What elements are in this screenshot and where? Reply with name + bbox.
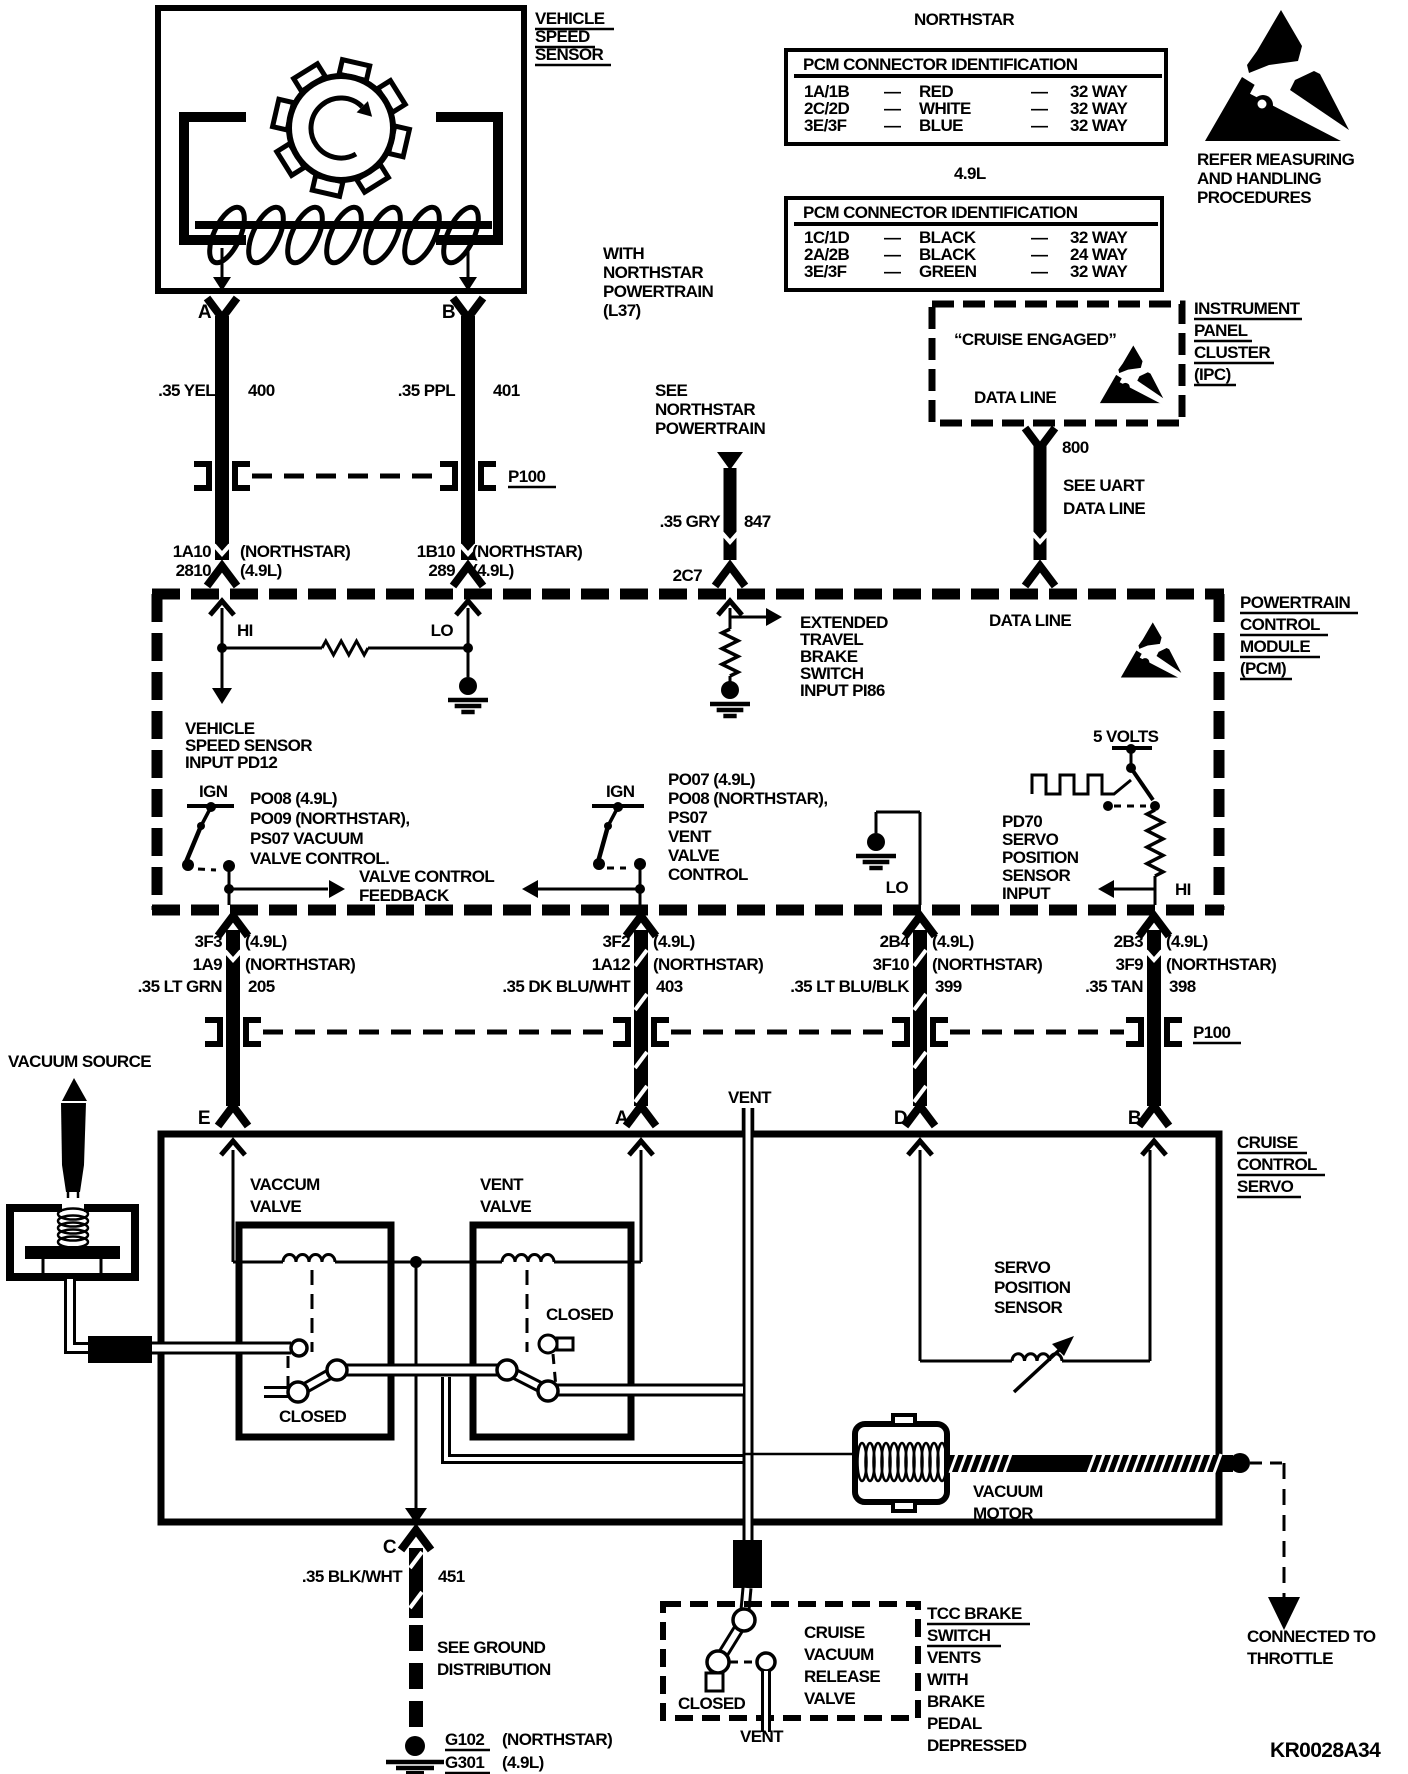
svg-text:POSITION: POSITION [994, 1278, 1071, 1297]
svg-text:BLUE: BLUE [919, 116, 963, 135]
svg-text:A: A [615, 1108, 629, 1129]
svg-text:.35 PPL: .35 PPL [398, 381, 455, 400]
svg-text:3E/3F: 3E/3F [804, 262, 847, 281]
svg-text:—: — [884, 116, 901, 135]
vent pipe above servo [742, 1108, 745, 1136]
svg-text:1B10: 1B10 [417, 542, 455, 561]
VSS core bar [195, 221, 492, 229]
svg-text:HI: HI [237, 621, 253, 640]
svg-text:SPEED: SPEED [535, 27, 590, 46]
svg-text:B: B [1128, 1108, 1141, 1129]
svg-text:VACCUM: VACCUM [250, 1175, 320, 1194]
vent valve seat symbol [539, 1335, 557, 1353]
LO branch ground [867, 833, 885, 851]
svg-text:VENT: VENT [728, 1088, 772, 1107]
svg-text:WITH: WITH [927, 1670, 968, 1689]
svg-text:(4.9L): (4.9L) [932, 932, 974, 951]
svg-text:AND HANDLING: AND HANDLING [1197, 169, 1321, 188]
svg-text:REFER MEASURING: REFER MEASURING [1197, 150, 1355, 169]
svg-text:CLOSED: CLOSED [546, 1305, 614, 1324]
TCC brake switch box [663, 1604, 918, 1718]
VSS pickup coil [203, 202, 252, 267]
svg-text:3F2: 3F2 [603, 932, 631, 951]
svg-text:800: 800 [1062, 438, 1089, 457]
svg-text:INSTRUMENT: INSTRUMENT [1194, 299, 1301, 318]
svg-text:INPUT PD12: INPUT PD12 [185, 753, 277, 772]
svg-text:CRUISE: CRUISE [804, 1623, 865, 1642]
vacuum valve lever [298, 1370, 337, 1392]
svg-text:(4.9L): (4.9L) [245, 932, 287, 951]
svg-text:TCC BRAKE: TCC BRAKE [927, 1604, 1022, 1623]
wire 398 (.35 TAN) [1139, 916, 1169, 936]
wire 847 (.35 GRY) [717, 452, 743, 470]
svg-text:LO: LO [886, 878, 909, 897]
tube to vacuum motor (continuation) [743, 1453, 857, 1456]
VSS coil lead A [221, 248, 224, 282]
PCM entry wire A [210, 601, 234, 615]
svg-text:.35 BLK/WHT: .35 BLK/WHT [302, 1567, 403, 1586]
VSS left pole piece [184, 117, 246, 240]
valve control feedback arrow (right) [229, 888, 328, 891]
svg-text:(4.9L): (4.9L) [240, 561, 282, 580]
svg-text:PO07 (4.9L): PO07 (4.9L) [668, 770, 755, 789]
svg-text:(NORTHSTAR): (NORTHSTAR) [472, 542, 582, 561]
svg-text:2B3: 2B3 [1114, 932, 1144, 951]
svg-text:PS07 VACUUM: PS07 VACUUM [250, 829, 363, 848]
vacuum valve box [239, 1225, 391, 1437]
svg-text:SENSOR: SENSOR [994, 1298, 1063, 1317]
svg-text:(NORTHSTAR): (NORTHSTAR) [502, 1730, 612, 1749]
svg-text:401: 401 [493, 381, 520, 400]
svg-text:POWERTRAIN: POWERTRAIN [603, 282, 713, 301]
wire 800 UART data line [1025, 428, 1055, 448]
svg-text:DISTRIBUTION: DISTRIBUTION [437, 1660, 551, 1679]
cruise control servo box [161, 1134, 1219, 1522]
svg-text:3F9: 3F9 [1116, 955, 1144, 974]
svg-text:—: — [884, 262, 901, 281]
svg-text:KR0028A34: KR0028A34 [1270, 1739, 1381, 1762]
ground for 847 input [721, 681, 739, 699]
svg-text:MODULE: MODULE [1240, 637, 1310, 656]
svg-text:1A12: 1A12 [592, 955, 630, 974]
svg-text:IGN: IGN [606, 782, 635, 801]
PCM connector table (4.9L) [786, 198, 1162, 290]
svg-text:VALVE CONTROL.: VALVE CONTROL. [250, 849, 389, 868]
vent valve coil [502, 1255, 554, 1262]
svg-text:PROCEDURES: PROCEDURES [1197, 188, 1311, 207]
svg-text:32 WAY: 32 WAY [1070, 262, 1128, 281]
internal resistor between HI and LO [222, 647, 322, 650]
vacuum valve plunger dashes [311, 1270, 314, 1352]
svg-text:.35 LT BLU/BLK: .35 LT BLU/BLK [790, 977, 910, 996]
svg-text:.35 YEL: .35 YEL [158, 381, 215, 400]
svg-text:NORTHSTAR: NORTHSTAR [655, 400, 755, 419]
servo position sensor [919, 1150, 922, 1361]
svg-text:DEPRESSED: DEPRESSED [927, 1736, 1027, 1755]
svg-text:SERVO: SERVO [994, 1258, 1051, 1277]
svg-text:—: — [1031, 262, 1048, 281]
canister spring [58, 1209, 88, 1220]
svg-text:—: — [1031, 116, 1048, 135]
svg-text:PO08 (NORTHSTAR),: PO08 (NORTHSTAR), [668, 789, 828, 808]
vent down tube [743, 1108, 754, 1540]
svg-text:VENTS: VENTS [927, 1648, 981, 1667]
elbow tube to vacuum motor [446, 1377, 743, 1459]
svg-text:VALVE: VALVE [668, 846, 719, 865]
svg-text:BRAKE: BRAKE [927, 1692, 985, 1711]
svg-text:(4.9L): (4.9L) [472, 561, 514, 580]
vent tube coupler to TCC valve [733, 1540, 762, 1588]
svg-text:.35 DK BLU/WHT: .35 DK BLU/WHT [502, 977, 631, 996]
svg-text:VALVE: VALVE [250, 1197, 301, 1216]
vent tube below valve [761, 1671, 771, 1732]
svg-text:NORTHSTAR: NORTHSTAR [603, 263, 703, 282]
wire to ground distribution [409, 1625, 423, 1734]
svg-text:(NORTHSTAR): (NORTHSTAR) [245, 955, 355, 974]
VSS right pole piece [436, 117, 498, 240]
svg-text:G301: G301 [445, 1753, 484, 1772]
svg-text:PD70: PD70 [1002, 812, 1042, 831]
svg-text:(NORTHSTAR): (NORTHSTAR) [932, 955, 1042, 974]
svg-text:VACUUM: VACUUM [973, 1482, 1043, 1501]
svg-text:4.9L: 4.9L [954, 164, 986, 183]
svg-text:CLOSED: CLOSED [279, 1407, 347, 1426]
vehicle speed sensor box [158, 8, 524, 291]
svg-text:.35 TAN: .35 TAN [1085, 977, 1143, 996]
svg-text:DATA LINE: DATA LINE [1063, 499, 1145, 518]
svg-text:32 WAY: 32 WAY [1070, 116, 1128, 135]
vehicle speed sensor input arrow [221, 648, 224, 690]
svg-text:SEE: SEE [655, 381, 687, 400]
svg-text:DATA LINE: DATA LINE [974, 388, 1056, 407]
svg-text:IGN: IGN [199, 782, 228, 801]
svg-text:205: 205 [248, 977, 275, 996]
svg-text:NORTHSTAR: NORTHSTAR [914, 10, 1014, 29]
svg-text:PS07: PS07 [668, 808, 707, 827]
svg-text:SENSOR: SENSOR [535, 45, 604, 64]
svg-text:(L37): (L37) [603, 301, 641, 320]
powertrain control module box [152, 589, 1224, 600]
vent valve plunger dashes [526, 1270, 529, 1352]
ESD symbol in IPC [1100, 345, 1166, 403]
svg-text:PO09 (NORTHSTAR),: PO09 (NORTHSTAR), [250, 809, 410, 828]
svg-text:A: A [198, 302, 212, 323]
svg-text:(4.9L): (4.9L) [502, 1753, 544, 1772]
PCM connector table (NORTHSTAR) [786, 50, 1166, 144]
junction node C feed [410, 1256, 422, 1268]
vent valve lever [507, 1370, 548, 1391]
pull-down resistor on 847 [722, 629, 738, 676]
svg-text:B: B [442, 302, 455, 323]
node LO [463, 643, 473, 653]
svg-text:VENT: VENT [480, 1175, 524, 1194]
svg-text:3F10: 3F10 [873, 955, 909, 974]
svg-text:SERVO: SERVO [1002, 830, 1059, 849]
svg-text:1A10: 1A10 [173, 542, 211, 561]
svg-text:1A9: 1A9 [193, 955, 223, 974]
svg-text:451: 451 [438, 1567, 465, 1586]
svg-text:PEDAL: PEDAL [927, 1714, 982, 1733]
svg-text:399: 399 [935, 977, 962, 996]
svg-text:POSITION: POSITION [1002, 848, 1079, 867]
svg-text:VEHICLE: VEHICLE [535, 9, 605, 28]
svg-text:WITH: WITH [603, 244, 644, 263]
svg-text:SERVO: SERVO [1237, 1177, 1294, 1196]
svg-text:“CRUISE ENGAGED”: “CRUISE ENGAGED” [954, 330, 1116, 349]
svg-text:398: 398 [1169, 977, 1196, 996]
potentiometer arrow [1014, 1342, 1068, 1392]
canister outlet tube [70, 1279, 88, 1348]
svg-text:(NORTHSTAR): (NORTHSTAR) [240, 542, 350, 561]
line from A to vent valve [640, 1150, 643, 1262]
wire 399 (.35 LT BLU/BLK) [905, 916, 935, 936]
svg-text:POWERTRAIN: POWERTRAIN [1240, 593, 1350, 612]
vacuum motor [855, 1424, 947, 1502]
svg-text:CLUSTER: CLUSTER [1194, 343, 1270, 362]
servo entry arrows [221, 1141, 245, 1155]
PD70 input arrow [1114, 888, 1155, 891]
svg-text:VALVE: VALVE [804, 1689, 855, 1708]
svg-text:VALVE CONTROL: VALVE CONTROL [359, 867, 494, 886]
svg-text:403: 403 [656, 977, 683, 996]
svg-text:HI: HI [1175, 880, 1191, 899]
svg-text:847: 847 [744, 512, 771, 531]
canister diaphragm plate [25, 1246, 120, 1259]
svg-text:G102: G102 [445, 1730, 484, 1749]
svg-text:3F3: 3F3 [195, 932, 223, 951]
square wave signal symbol [1032, 775, 1131, 794]
servo position sensor resistor [1147, 810, 1163, 876]
svg-text:(4.9L): (4.9L) [1166, 932, 1208, 951]
svg-text:THROTTLE: THROTTLE [1247, 1649, 1333, 1668]
svg-text:CONTROL: CONTROL [668, 865, 748, 884]
vent valve outlet tube [556, 1384, 743, 1397]
svg-text:E: E [198, 1108, 210, 1129]
svg-text:SEE UART: SEE UART [1063, 476, 1145, 495]
svg-text:VACUUM SOURCE: VACUUM SOURCE [8, 1052, 151, 1071]
terminal C [401, 1530, 431, 1550]
svg-text:RELEASE: RELEASE [804, 1667, 880, 1686]
svg-text:400: 400 [248, 381, 275, 400]
vacuum valve coil [283, 1255, 335, 1262]
ESD warning symbol (large) [1205, 10, 1355, 141]
wire 403 (.35 DK BLU/WHT) [626, 916, 656, 936]
ground G102/G301 [405, 1736, 425, 1756]
terminal A of VSS [207, 298, 237, 318]
svg-text:2C7: 2C7 [673, 566, 703, 585]
svg-text:PCM CONNECTOR IDENTIFICATION: PCM CONNECTOR IDENTIFICATION [803, 203, 1078, 222]
wire 451 feed (C) [415, 1262, 418, 1508]
svg-text:INPUT PI86: INPUT PI86 [800, 681, 885, 700]
svg-text:INPUT: INPUT [1002, 884, 1051, 903]
svg-text:5 VOLTS: 5 VOLTS [1093, 727, 1159, 746]
svg-text:CONTROL: CONTROL [1240, 615, 1320, 634]
ESD symbol in PCM [1121, 622, 1184, 677]
terminal B of VSS [453, 298, 483, 318]
svg-text:(NORTHSTAR): (NORTHSTAR) [1166, 955, 1276, 974]
svg-text:GREEN: GREEN [919, 262, 977, 281]
vent valve box [473, 1225, 631, 1437]
svg-text:(IPC): (IPC) [1194, 365, 1231, 384]
svg-text:POWERTRAIN: POWERTRAIN [655, 419, 765, 438]
VSS coil lead B [467, 248, 470, 282]
svg-text:CLOSED: CLOSED [678, 1694, 746, 1713]
lever pivots [291, 1340, 307, 1356]
svg-text:VENT: VENT [668, 827, 712, 846]
svg-text:P100: P100 [508, 467, 545, 486]
vacuum hose coupler [88, 1336, 152, 1363]
svg-text:2810: 2810 [176, 561, 212, 580]
inline connector P100 (upper) [194, 464, 209, 488]
PCM entry wire B [456, 601, 480, 615]
svg-text:VALVE: VALVE [480, 1197, 531, 1216]
svg-text:CONTROL: CONTROL [1237, 1155, 1317, 1174]
vacuum source arrow [62, 1078, 87, 1101]
svg-text:C: C [383, 1537, 397, 1558]
svg-text:(4.9L): (4.9L) [653, 932, 695, 951]
node HI [217, 643, 227, 653]
wire 401 (.35 PPL) [461, 316, 475, 560]
svg-text:CONNECTED TO: CONNECTED TO [1247, 1627, 1376, 1646]
wire 400 (.35 YEL) [215, 316, 229, 560]
svg-text:.35 GRY: .35 GRY [660, 512, 722, 531]
svg-text:SEE GROUND: SEE GROUND [437, 1638, 546, 1657]
LO internal ground [467, 648, 470, 677]
vacuum source tube into servo [152, 1342, 291, 1355]
instrument panel cluster box [932, 304, 1182, 423]
vacuum motor rod [947, 1455, 1233, 1472]
svg-text:SWITCH: SWITCH [927, 1626, 991, 1645]
vacuum source stem [61, 1103, 86, 1192]
valve control feedback arrow (left) [538, 888, 640, 891]
lever tube between valves [345, 1364, 500, 1377]
svg-text:(PCM): (PCM) [1240, 659, 1286, 678]
svg-text:PO08 (4.9L): PO08 (4.9L) [250, 789, 337, 808]
svg-text:PCM CONNECTOR IDENTIFICATION: PCM CONNECTOR IDENTIFICATION [803, 55, 1078, 74]
svg-text:VACUUM: VACUUM [804, 1645, 874, 1664]
inline connector P100 (lower) [205, 1020, 220, 1044]
servo position sensor switch [1131, 768, 1153, 800]
svg-text:(NORTHSTAR): (NORTHSTAR) [653, 955, 763, 974]
valve supply line from E [232, 1150, 235, 1262]
svg-text:CRUISE: CRUISE [1237, 1133, 1298, 1152]
svg-text:P100: P100 [1193, 1023, 1230, 1042]
svg-text:FEEDBACK: FEEDBACK [359, 886, 450, 905]
VSS reluctor gear [273, 60, 410, 197]
svg-text:3E/3F: 3E/3F [804, 116, 847, 135]
svg-text:LO: LO [431, 621, 454, 640]
PCM entry wire 847 / extended travel brake switch input [718, 601, 742, 615]
svg-text:289: 289 [428, 561, 455, 580]
svg-text:SENSOR: SENSOR [1002, 866, 1071, 885]
wire 451 (.35 BLK/WHT) [409, 1548, 423, 1618]
svg-text:D: D [894, 1108, 907, 1129]
svg-text:DATA LINE: DATA LINE [989, 611, 1071, 630]
svg-text:MOTOR: MOTOR [973, 1504, 1033, 1523]
svg-text:.35 LT GRN: .35 LT GRN [138, 977, 223, 996]
svg-text:VENT: VENT [740, 1727, 784, 1746]
svg-text:PANEL: PANEL [1194, 321, 1248, 340]
vacuum reservoir canister [10, 1208, 135, 1277]
connected-to-throttle dashed line [1250, 1462, 1284, 1465]
wire 205 (.35 LT GRN) [218, 916, 248, 936]
svg-text:2B4: 2B4 [880, 932, 911, 951]
cruise vacuum release valve lever [718, 1620, 744, 1662]
